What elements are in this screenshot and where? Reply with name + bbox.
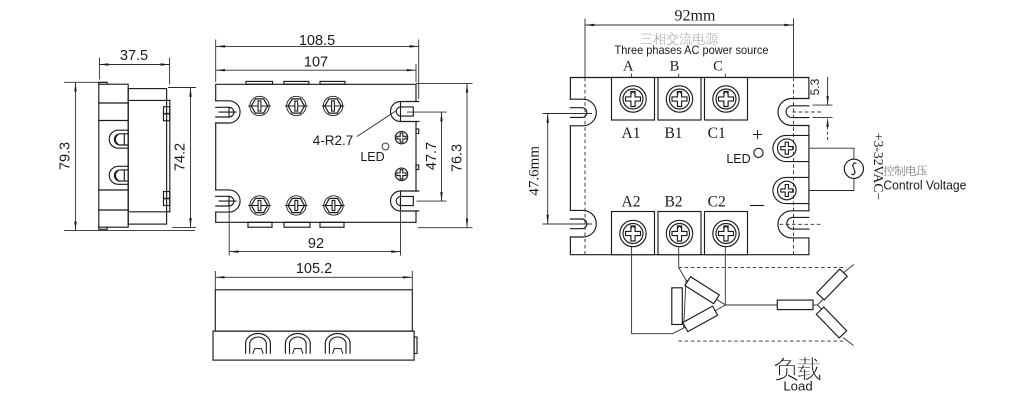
mounting slot top-right (wiring)	[778, 99, 809, 126]
svg-text:LED: LED	[360, 150, 384, 164]
dimension 79.3 line	[75, 82, 77, 230]
terminal dome 3 (bottom view)	[325, 334, 350, 354]
control screw - (plan)	[395, 168, 407, 180]
svg-text:A2: A2	[622, 194, 641, 211]
terminal screw A (plan)	[248, 96, 271, 115]
svg-text:5.3: 5.3	[808, 78, 822, 95]
top notch	[99, 82, 107, 84]
side view: main body	[128, 89, 166, 225]
wye branch upper	[818, 300, 824, 306]
terminal screw C2	[713, 220, 739, 246]
wire phase A	[631, 74, 633, 100]
mounting slot bottom-right	[391, 191, 419, 211]
terminal block A2	[612, 212, 655, 255]
top edge tabs	[246, 81, 273, 84]
wire delta apex to wye	[726, 304, 778, 306]
right edge small tabs	[416, 129, 419, 134]
svg-text:47.7: 47.7	[424, 142, 440, 170]
body outline (plan)	[216, 84, 416, 222]
terminal screw B (plan)	[285, 96, 308, 115]
svg-text:92mm: 92mm	[675, 8, 716, 25]
side view: left terminal block	[99, 84, 128, 227]
delta resistor top	[685, 277, 719, 304]
terminal oval 1 (side)	[109, 130, 128, 148]
control terminal +	[773, 135, 809, 161]
right mount plate	[167, 99, 170, 101]
centerlines (dashed) through mounting slots	[584, 78, 586, 255]
mounting slot top-right	[391, 102, 419, 122]
extension 92mm (solid above body)	[584, 19, 586, 78]
delta resistor left (vertical)	[672, 288, 683, 325]
svg-text:76.3: 76.3	[450, 144, 466, 172]
slot centerlines	[543, 113, 593, 115]
mounting slot top-left	[216, 101, 240, 123]
delta resistor bottom	[683, 306, 718, 331]
bottom view upper block	[215, 290, 412, 331]
extension 105.2	[214, 271, 216, 290]
svg-text:C2: C2	[708, 194, 726, 211]
dimension 76.3 line	[466, 83, 468, 227]
extension line 74.2 top	[168, 87, 196, 89]
terminal dome 2 (bottom view)	[285, 334, 310, 354]
bottom notch	[99, 227, 107, 229]
svg-text:B: B	[670, 59, 680, 75]
extension line 74.2 bottom	[172, 226, 196, 228]
plate tabs lower	[164, 192, 170, 199]
terminal block C2	[705, 212, 748, 255]
AC tilde symbol	[852, 163, 857, 175]
terminal block C1	[705, 78, 748, 121]
extension line 79.3 top	[64, 81, 108, 83]
terminal block B2	[658, 212, 701, 255]
extension baseline bottom (shared 79.3/74.2)	[64, 230, 195, 232]
terminal screw C (plan)	[322, 96, 345, 115]
terminal oval 2 (side)	[109, 166, 128, 184]
extension 5.3	[813, 104, 833, 106]
dimension 74.2 line	[190, 88, 192, 228]
svg-text:107: 107	[304, 55, 328, 71]
mounting slot bottom-right (wiring)	[778, 211, 809, 238]
right small tab	[414, 337, 417, 354]
text san xiang jiao liu dian yuan (gray)	[640, 32, 718, 45]
svg-text:LED: LED	[726, 152, 750, 166]
dimension 5.3 arrows	[827, 77, 829, 105]
wire from A2	[632, 247, 684, 334]
wire from C2	[724, 247, 726, 305]
dimension 92mm line	[585, 24, 794, 26]
extension 108.5	[215, 40, 217, 83]
LED hole (wiring)	[754, 148, 763, 157]
relay body (wiring)	[570, 78, 809, 255]
extension 76.3	[416, 82, 473, 84]
mounting slot bottom-left (wiring)	[570, 210, 596, 237]
svg-text:37.5: 37.5	[120, 48, 148, 64]
delta load triangle	[684, 280, 726, 328]
terminal block A1	[612, 78, 655, 121]
svg-text:Control Voltage: Control Voltage	[883, 178, 966, 193]
svg-text:C1: C1	[708, 125, 726, 142]
leader line	[357, 111, 397, 137]
dimension 105.2 line	[215, 276, 412, 278]
dimension 107 line	[216, 69, 416, 71]
dimension 92 line	[229, 251, 400, 253]
svg-text:105.2: 105.2	[296, 261, 332, 277]
minus label	[751, 205, 764, 207]
svg-text:79.3: 79.3	[58, 142, 74, 170]
dimension 47.6mm line	[547, 114, 549, 225]
control screw + (plan)	[395, 131, 407, 143]
text fu zai (Load CJK)	[774, 357, 821, 381]
mounting slot bottom-left	[216, 190, 240, 212]
wye branch lower	[818, 305, 824, 311]
svg-text:74.2: 74.2	[173, 143, 189, 171]
wire phase B	[678, 74, 680, 100]
terminal screw A2	[620, 220, 646, 246]
svg-text:92: 92	[308, 236, 324, 252]
dimension 47.7 line	[441, 112, 443, 201]
LED hole	[382, 143, 389, 150]
wire from B2	[679, 247, 686, 280]
svg-text:Load: Load	[783, 379, 812, 394]
svg-text:A: A	[623, 59, 634, 75]
block division lines	[99, 102, 128, 104]
bottom view lower block	[213, 331, 414, 360]
wire phase C	[724, 74, 726, 100]
dimension 37.5 line	[99, 64, 169, 66]
AC source circle	[844, 159, 863, 178]
plate tabs upper	[164, 107, 170, 114]
svg-text:A1: A1	[622, 125, 641, 142]
svg-text:4-R2.7: 4-R2.7	[313, 133, 354, 148]
svg-text:B1: B1	[664, 125, 682, 142]
terminal screw B1	[666, 86, 692, 112]
svg-text:+: +	[752, 125, 763, 146]
text kong zhi dian ya	[883, 165, 927, 176]
control terminal -	[773, 177, 809, 203]
bottom edge tabs	[248, 222, 272, 227]
svg-text:C: C	[713, 59, 723, 75]
extension 92	[228, 203, 230, 256]
svg-text:Three phases AC power source: Three phases AC power source	[615, 43, 769, 57]
wire to wye node	[813, 304, 818, 306]
terminal screw C1	[713, 86, 739, 112]
terminal dome 1 (bottom view)	[246, 334, 271, 354]
control wiring loop	[809, 148, 854, 159]
terminal screw B2 (plan)	[285, 196, 308, 215]
terminal screw A1	[620, 86, 646, 112]
extension lines 37.5	[98, 58, 100, 80]
terminal screw C2 (plan)	[322, 196, 345, 215]
terminal block B1	[658, 78, 701, 121]
body band lines	[128, 99, 166, 101]
svg-text:B2: B2	[664, 194, 682, 211]
dashed link top	[678, 267, 846, 269]
dashed link bottom	[678, 340, 843, 342]
extension 47.7	[407, 111, 447, 113]
extension 107 right	[415, 64, 417, 82]
terminal screw A2 (plan)	[248, 196, 271, 215]
mounting slot top-left (wiring)	[570, 99, 596, 126]
svg-text:47.6mm: 47.6mm	[527, 146, 543, 196]
wye resistor horizontal	[777, 300, 813, 310]
dimension 108.5 line	[216, 45, 419, 47]
terminal screw B2	[666, 220, 692, 246]
